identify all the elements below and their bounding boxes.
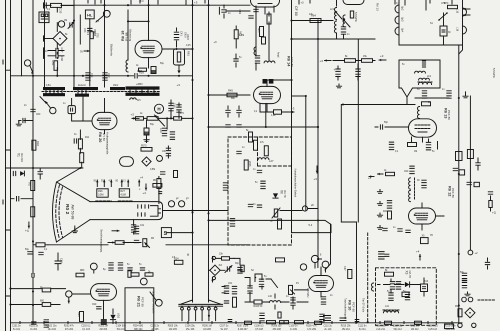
capacitor C81 stack	[261, 181, 265, 183]
tube envelope partial left	[120, 157, 134, 167]
svg-text:Tonzwischenfrequenz: Tonzwischenfrequenz	[343, 298, 345, 319]
svg-text:R203 2M: R203 2M	[99, 326, 108, 328]
crt anode lead diagonal	[58, 168, 81, 182]
svg-text:Rö 13: Rö 13	[376, 3, 380, 11]
test point B2	[157, 155, 163, 161]
svg-text:+2: +2	[475, 251, 479, 255]
border line left outer	[5, 0, 7, 331]
capacitor D4 right dbl	[462, 273, 466, 275]
svg-text:C20: C20	[107, 73, 109, 78]
resistor R18	[32, 140, 36, 150]
capacitor C72b pair	[230, 219, 234, 221]
ground D4	[465, 292, 470, 296]
svg-text:0,5A: 0,5A	[46, 84, 51, 87]
dashed module box sound IF	[228, 137, 292, 245]
svg-text:C63: C63	[238, 10, 241, 15]
resistor R63	[234, 30, 238, 39]
capacitor C4	[17, 197, 19, 201]
svg-text:Bildbreite: Bildbreite	[110, 44, 114, 56]
ground C4 b	[377, 202, 382, 206]
capacitor D2 b	[140, 268, 144, 270]
svg-text:R208 330: R208 330	[272, 326, 283, 328]
box X9	[459, 170, 465, 175]
capacitor C41 stack	[174, 32, 178, 34]
svg-text:+3: +3	[314, 177, 318, 181]
svg-text:C103 0,1: C103 0,1	[81, 326, 91, 328]
capacitor C84 pair	[356, 69, 360, 71]
tube Rö14 envelope	[254, 86, 281, 103]
wire y242.5 CRT	[48, 243, 141, 245]
top edge ticks right half	[299, 0, 452, 5]
capacitor D4 top	[379, 252, 385, 254]
wire CRT top feed	[6, 167, 83, 169]
wire vertical bus x33	[32, 0, 34, 273]
wire vertical bus x458.8	[458, 45, 460, 324]
coil D4 left edge	[372, 283, 374, 291]
wire vertical bus B x208.5	[208, 0, 210, 302]
right edge capacitor	[485, 262, 489, 264]
arrow +3 up C3	[316, 166, 318, 173]
wire vertical bus x291.5	[291, 0, 293, 166]
wire vertical dashed x291.5 lower	[291, 166, 293, 233]
top edge ticks A2	[131, 0, 205, 5]
wire detector out	[280, 209, 318, 211]
wire transformer tap diagonal	[40, 97, 46, 103]
capacitor C65b	[254, 9, 258, 11]
svg-text:R61: R61	[187, 51, 191, 56]
svg-text:S: S	[164, 231, 168, 237]
wire tube Rö19 bottom	[148, 58, 150, 68]
arrow +3V left	[379, 59, 386, 61]
test point D3 b	[322, 261, 329, 268]
resistor R57	[141, 148, 152, 152]
ground B4	[465, 92, 467, 94]
capacitor C78 pair	[389, 142, 393, 144]
connector pins	[182, 306, 216, 321]
diode X3	[405, 282, 410, 287]
capacitor C49 stack	[162, 128, 166, 130]
wire switch chain	[245, 274, 271, 295]
capacitor C58b	[135, 74, 137, 78]
svg-text:50µ: 50µ	[25, 249, 30, 251]
test point D2 a	[140, 278, 147, 285]
wire D1 rows	[11, 289, 91, 305]
capacitor D3 stack	[259, 279, 263, 281]
crt screen inner dashed arcs	[56, 185, 60, 239]
test point D4 pair	[462, 297, 467, 302]
capacitor C71 pair	[226, 110, 230, 112]
bottom small components on line	[245, 321, 252, 324]
thermistor R52	[274, 209, 277, 217]
tube Rö16 envelope (cut)	[343, 0, 364, 5]
svg-text:26S5: 26S5	[248, 161, 250, 167]
wire Rö14 pin drop	[265, 104, 267, 128]
capacitor D2 dbl	[232, 286, 236, 288]
svg-text:50µ: 50µ	[150, 124, 155, 126]
sound block caps	[422, 61, 425, 63]
capacitor D1 bottom a	[32, 322, 36, 324]
test point circle b	[103, 10, 110, 17]
svg-text:C38: C38	[60, 56, 64, 61]
diode X10	[110, 315, 115, 320]
wire Rö14 pins	[260, 80, 292, 112]
capacitor C92 pair	[387, 201, 391, 203]
arrow +4 c2	[145, 184, 147, 190]
wire vertical bus A x192.5	[192, 0, 194, 302]
module box Rö21	[125, 288, 154, 331]
tuner coil L13 bump	[395, 16, 399, 24]
svg-text:50µ: 50µ	[160, 63, 165, 65]
svg-text:PCF 80: PCF 80	[447, 110, 451, 120]
resistor R64 on wire	[310, 19, 321, 23]
svg-text:H: H	[157, 106, 160, 111]
svg-text:R201 1k: R201 1k	[29, 326, 38, 328]
resistor R46	[249, 132, 253, 142]
svg-text:5,4: 5,4	[309, 223, 313, 227]
svg-text:PCF 80: PCF 80	[451, 188, 455, 198]
arrow +4 CRT	[28, 222, 30, 228]
svg-text:Boosterspg.: Boosterspg.	[129, 28, 132, 41]
wire y232.6	[292, 232, 332, 234]
svg-text:Ampl.: Ampl.	[277, 52, 280, 58]
svg-text:Rö 2: Rö 2	[64, 204, 70, 215]
coil Sp5	[254, 47, 256, 55]
crt Rö2 screen arc	[53, 182, 57, 242]
svg-text:Sp2: Sp2	[401, 6, 404, 11]
svg-text:R45: R45	[228, 89, 233, 93]
IF trimmer arrow	[335, 11, 342, 19]
wire vertical dashed x367.7	[367, 233, 369, 322]
arrow +3 right	[288, 111, 294, 113]
capacitor D4 pair c	[389, 293, 393, 295]
right edge test point	[468, 250, 473, 255]
box X10	[474, 182, 479, 186]
ground under funnel	[74, 226, 76, 229]
bottom frame line	[11, 322, 463, 324]
resistor R48	[264, 146, 268, 156]
capacitor C94	[398, 229, 402, 231]
yoke winding bar left	[96, 200, 111, 202]
coil L18	[418, 107, 420, 119]
IF coil L21	[335, 8, 337, 20]
svg-text:0,47: 0,47	[343, 266, 345, 271]
svg-text:C52B4: C52B4	[93, 29, 95, 37]
coil L22	[264, 61, 275, 63]
test point circle g3	[179, 201, 185, 207]
resistor R50	[51, 3, 62, 7]
resistor R83	[42, 288, 51, 292]
diode X6	[273, 193, 278, 198]
svg-text:+4: +4	[143, 191, 147, 195]
wire D3 links	[318, 259, 322, 297]
svg-text:C104 50u: C104 50u	[116, 326, 127, 328]
wire C48 stub	[167, 100, 179, 129]
resistor R65	[260, 27, 264, 37]
tube Rö13 envelope	[409, 119, 437, 137]
svg-text:R212 1M: R212 1M	[410, 326, 419, 328]
resistor R88	[222, 257, 230, 260]
test point D3 a	[311, 255, 318, 262]
tube Rö20 envelope	[92, 112, 117, 129]
wire component column x57.3	[56, 8, 58, 76]
capacitor C68 big	[55, 261, 61, 264]
resistor R12	[80, 153, 84, 163]
capacitor C6B below neck	[131, 225, 135, 227]
yoke arrow extra	[138, 180, 140, 186]
tuner coil L16 bump	[463, 26, 467, 34]
wire pot to tube	[295, 259, 326, 290]
arrow X2 up	[212, 257, 214, 263]
capacitor C3	[38, 172, 42, 174]
transformer T1 winding bar 5	[110, 87, 125, 90]
arrow X2 down	[212, 278, 214, 283]
crt funnel top edge	[57, 182, 91, 202]
resistor R28 above neck end	[153, 184, 162, 188]
resistor R59	[139, 68, 147, 71]
resistor R40	[386, 172, 395, 175]
wire y118.4 row	[133, 117, 193, 119]
wire y220	[209, 220, 332, 232]
resistor bottom a	[267, 321, 276, 324]
svg-text:Beschleunigungsspg.: Beschleunigungsspg.	[99, 229, 102, 252]
resistor R24	[174, 260, 183, 264]
capacitor C63 plate	[219, 7, 250, 14]
svg-text:+3: +3	[131, 113, 135, 117]
wire thick L x343	[341, 105, 415, 323]
yoke winding bar right	[118, 200, 132, 202]
svg-text:3V: 3V	[80, 51, 83, 54]
svg-text:Koinzidenzschalter-Einheit: Koinzidenzschalter-Einheit	[293, 169, 296, 198]
svg-text:+3: +3	[194, 1, 198, 5]
test point with arrow	[50, 107, 56, 113]
trimmer C d2	[227, 267, 229, 271]
connector circles bottom	[458, 323, 462, 327]
tuner switch S1	[439, 13, 447, 20]
test point D1	[90, 263, 97, 270]
tube Rö21 envelope	[91, 284, 117, 301]
svg-text:Rö 14: Rö 14	[286, 56, 290, 67]
svg-text:Rö 10: Rö 10	[348, 300, 352, 310]
wire Rö20 top	[83, 97, 105, 122]
resistor R89	[233, 297, 237, 307]
resistor R25 boxed	[241, 265, 244, 272]
svg-text:5,5 MHz: 5,5 MHz	[492, 68, 496, 79]
svg-text:C99: C99	[92, 304, 97, 306]
box fuse	[445, 324, 454, 329]
wire R61 drop with arrow	[178, 65, 180, 72]
capacitor D3 pair	[291, 298, 295, 300]
capacitor C72 pair	[226, 125, 230, 127]
svg-text:R92: R92	[455, 306, 460, 308]
svg-text:Ton-ZF-Stufe: Ton-ZF-Stufe	[362, 298, 365, 313]
coil L41 dashed	[383, 311, 398, 313]
svg-text:L15: L15	[456, 9, 459, 14]
svg-text:C48: C48	[173, 103, 176, 108]
resistor bottom cluster D3	[278, 312, 281, 318]
svg-text:OA 70: OA 70	[283, 190, 287, 198]
svg-text:C49: C49	[159, 128, 162, 133]
capacitor C67 pair	[255, 56, 259, 58]
more bottom components	[320, 314, 324, 316]
svg-text:R70: R70	[444, 3, 449, 5]
diamond X15	[465, 308, 475, 318]
svg-text:X1: X1	[17, 153, 21, 157]
svg-text:1M: 1M	[64, 20, 67, 22]
boxed resistor R49	[274, 110, 282, 114]
svg-text:4,5M: 4,5M	[120, 193, 125, 196]
resistor R85	[80, 312, 84, 322]
svg-text:DY 86: DY 86	[102, 133, 106, 141]
svg-text:C33: C33	[83, 28, 85, 33]
svg-text:C41A: C41A	[183, 32, 186, 38]
capacitor C65	[249, 16, 253, 18]
sound block coil	[415, 71, 426, 73]
resistor R47	[254, 140, 258, 150]
diamond X2	[210, 265, 220, 275]
capacitor D4 pair b	[396, 282, 400, 284]
capacitor D4 pair a	[390, 282, 394, 284]
tube Rö12 envelope	[409, 208, 436, 224]
test point D1 b	[66, 291, 72, 297]
capacitor C66 stack	[341, 27, 345, 29]
svg-text:Rö 21: Rö 21	[136, 296, 141, 308]
capacitor C76 stack	[447, 91, 451, 93]
junction B3	[290, 79, 292, 81]
trimmer capacitor C36	[70, 23, 72, 27]
resistor R71	[350, 11, 353, 18]
switch S2 contact	[254, 274, 256, 282]
svg-text:R207 0,1M: R207 0,1M	[237, 326, 248, 328]
capacitor C38	[56, 54, 58, 58]
wire top bus y5.2	[74, 4, 250, 6]
capacitor D1 a	[28, 252, 32, 254]
dark component X12	[101, 319, 107, 325]
svg-text:R213 680k: R213 680k	[445, 326, 457, 328]
bottom tick marks	[20, 322, 452, 324]
wire +3 row	[333, 60, 375, 62]
capacitor C12	[134, 240, 138, 242]
wire B4 bottoms	[412, 137, 429, 142]
resistor R29 on wire	[115, 241, 124, 245]
box crystal X14	[421, 284, 428, 292]
capacitor C95	[453, 168, 457, 170]
svg-text:OA 210: OA 210	[20, 153, 24, 162]
arrow +4 D4	[419, 255, 421, 261]
svg-text:1M: 1M	[414, 151, 417, 153]
diode X11	[20, 171, 24, 176]
tuner coil L15 bump	[463, 8, 467, 16]
svg-text:R2: R2	[28, 183, 32, 187]
svg-text:+4: +4	[140, 176, 144, 180]
resistor R8 boxed	[174, 171, 178, 178]
svg-text:Zeilentr.: Zeilentr.	[78, 84, 87, 87]
svg-text:L16: L16	[456, 27, 459, 32]
junction C3	[317, 219, 319, 221]
left border ticks	[3, 60, 11, 296]
svg-text:R80: R80	[80, 270, 85, 272]
capacitor C60 series	[32, 104, 34, 118]
svg-text:+280V: +280V	[136, 84, 143, 86]
svg-text:0,5M: 0,5M	[98, 193, 103, 196]
wire stub x475 y300	[478, 299, 495, 301]
wire B4 row	[415, 97, 449, 99]
resistor R53	[278, 219, 282, 229]
svg-text:C111 8n: C111 8n	[358, 326, 367, 328]
svg-text:R570: R570	[141, 146, 147, 148]
crt grid arrows	[96, 180, 98, 187]
crt base pins	[138, 205, 149, 216]
resistor R69	[362, 59, 373, 63]
svg-text:C105 2n: C105 2n	[150, 326, 159, 328]
choke Dr5 below bars	[130, 98, 136, 100]
svg-text:C60: C60	[36, 114, 41, 116]
svg-text:5,5 MHz: 5,5 MHz	[354, 12, 358, 23]
junction D4	[458, 253, 460, 255]
svg-text:+3: +3	[301, 1, 305, 5]
wire Rö15 cathode column	[256, 6, 269, 70]
resistor R51	[54, 61, 58, 71]
capacitor D3 dark	[324, 316, 331, 321]
svg-text:C106 25u: C106 25u	[185, 326, 196, 328]
svg-text:R206 1M: R206 1M	[202, 326, 211, 328]
capacitor C69 pair	[109, 263, 113, 265]
resistor R4	[36, 243, 45, 247]
transformer T1 winding bar 3	[73, 87, 98, 90]
circled a test point	[24, 60, 30, 66]
svg-text:51S: 51S	[86, 31, 88, 36]
svg-text:50µ: 50µ	[460, 272, 465, 274]
coil L40	[269, 301, 280, 303]
resistor R6B	[90, 32, 93, 39]
wire Rö12 pins	[422, 203, 444, 230]
border line left inner	[10, 0, 12, 331]
arrow +3 row A3	[325, 60, 332, 62]
svg-text:16kV: 16kV	[113, 85, 119, 87]
tuner cap C70 boxed	[440, 26, 447, 36]
wire vertical bus x74	[73, 0, 75, 87]
capacitor C11 stack	[134, 226, 138, 228]
resistor R11	[78, 139, 82, 149]
svg-text:X10: X10	[117, 313, 121, 319]
ground C4 c	[377, 226, 382, 230]
capacitor C82	[257, 205, 261, 207]
svg-text:C41: C41	[180, 31, 184, 36]
svg-text:C109 1n: C109 1n	[289, 326, 298, 328]
wire C61 stub	[24, 120, 33, 122]
boxed resistor R27 yoke	[119, 189, 129, 197]
svg-text:OA 70: OA 70	[408, 271, 412, 279]
capacitor C5 above neck	[159, 192, 162, 194]
potentiometer R30 crt	[143, 239, 147, 247]
tube Rö19 envelope	[135, 40, 162, 57]
svg-text:C41B: C41B	[186, 34, 188, 40]
boxed resistor R30	[422, 102, 431, 106]
capacitor C37	[56, 48, 58, 52]
resistor R60	[136, 117, 144, 120]
svg-text:16 0: 16 0	[139, 1, 144, 3]
wire vertical bus x44.5	[44, 0, 46, 87]
svg-text:Rö 13: Rö 13	[443, 108, 447, 118]
capacitor C39 on HL drop	[88, 28, 92, 30]
capacitor C50 stack	[166, 148, 170, 150]
wire crt base out2	[166, 233, 250, 245]
wire tube Rö19 top	[128, 0, 193, 60]
resistor R93 box	[402, 292, 409, 297]
svg-text:H: H	[187, 253, 189, 257]
transformer T1 winding bar 7	[126, 93, 160, 96]
svg-text:C110 2u: C110 2u	[323, 326, 332, 328]
svg-text:C102 10u: C102 10u	[47, 326, 58, 328]
